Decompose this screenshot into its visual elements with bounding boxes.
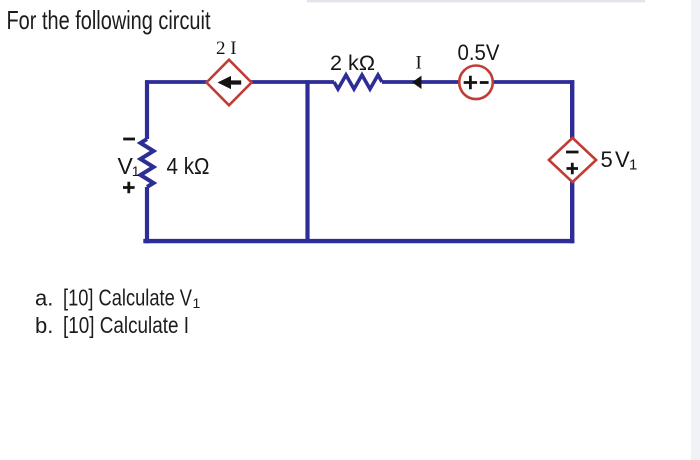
svg-text:b.: b. <box>35 313 53 338</box>
wire right segment <box>570 80 574 243</box>
wire middle branch <box>305 80 309 241</box>
wire left top segment <box>145 80 149 139</box>
svg-text:a.: a. <box>35 286 53 311</box>
voltage source 0.5V circle <box>459 66 493 100</box>
svg-text:1: 1 <box>629 156 637 173</box>
svg-text:V: V <box>615 147 630 172</box>
svg-text:[10] Calculate V: [10] Calculate V <box>63 285 193 311</box>
wire bottom segment <box>143 239 574 243</box>
svg-text:I: I <box>416 53 422 74</box>
svg-text:2 kΩ: 2 kΩ <box>330 52 375 75</box>
svg-text:0.5V: 0.5V <box>458 40 500 65</box>
svg-text:5: 5 <box>601 147 613 172</box>
polarity plus below V1 <box>123 182 135 194</box>
dependent voltage source 5V1 diamond <box>549 138 596 182</box>
svg-text:1: 1 <box>132 163 140 179</box>
wire left bottom segment <box>145 187 149 243</box>
resistor R2 zigzag <box>334 75 382 89</box>
label 5V1 <box>601 147 638 174</box>
svg-text:4 kΩ: 4 kΩ <box>167 153 210 179</box>
dependent current source 2I diamond <box>207 60 252 106</box>
node label V1 <box>118 153 140 179</box>
question line a <box>35 285 201 312</box>
resistor R1 zigzag <box>141 139 154 187</box>
svg-text:2 I: 2 I <box>216 38 237 59</box>
wire top-right segment <box>382 80 574 84</box>
svg-text:For the following circuit: For the following circuit <box>7 5 212 35</box>
svg-text:[10] Calculate I: [10] Calculate I <box>63 312 189 338</box>
current arrow I on top wire <box>412 76 422 89</box>
wire top-left segment <box>145 80 334 84</box>
svg-text:1: 1 <box>193 295 201 311</box>
polarity minus above V1 <box>123 138 135 141</box>
